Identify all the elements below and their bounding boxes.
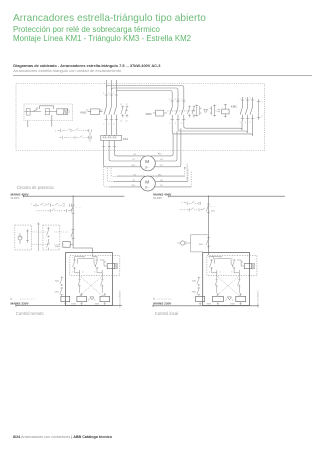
KM1 pole terminal ticks bottom: [105, 119, 118, 121]
KM1 pole terminal labels top: [103, 93, 114, 95]
coil feed stubs local: [217, 293, 241, 296]
svg-text:KM3: KM3: [146, 112, 152, 116]
star-point labels: [262, 102, 263, 118]
coil feed stubs: [62, 293, 105, 296]
logic cross stubs: [80, 253, 103, 277]
motor2 dashed link right: [185, 169, 191, 187]
svg-text:KM1: KM1: [192, 291, 197, 293]
svg-text:M: M: [145, 159, 149, 164]
mains label Hz local: [153, 197, 163, 200]
N mains bold label: [11, 302, 30, 306]
pilot row A terminals: [87, 129, 92, 132]
svg-text:4: 4: [245, 122, 246, 124]
svg-text:50-60Hz: 50-60Hz: [11, 197, 21, 200]
control unit timer block KT: [57, 109, 68, 115]
svg-text:KM2: KM2: [231, 105, 237, 109]
feed drop contact labels: [75, 207, 81, 209]
motor feed W1: [104, 141, 142, 167]
motor M2 return W2: [151, 175, 185, 177]
motor feed V1: [109, 141, 141, 162]
logic left contact KM1 local: [192, 287, 201, 296]
fuse F1 contact: [31, 203, 43, 207]
svg-text:21: 21: [126, 104, 128, 106]
svg-text:FA1: FA1: [123, 137, 129, 141]
pilot contact row A: [55, 129, 64, 133]
pilot row B terminals: [87, 136, 91, 139]
KM3 coil: [153, 110, 167, 116]
KM2 pole 1: [240, 97, 242, 121]
section subheading gray: [13, 68, 121, 73]
svg-text:a: a: [75, 207, 77, 209]
svg-text:2: 2: [209, 272, 210, 274]
motor M1 return U2: [155, 131, 177, 161]
svg-text:A1: A1: [86, 109, 88, 112]
fuse local row2 dashes: [180, 209, 199, 211]
control unit dashed box: [24, 104, 73, 121]
control local caption: [155, 311, 178, 316]
svg-text:MAINS 230V: MAINS 230V: [11, 302, 30, 306]
svg-text:5: 5: [231, 258, 232, 260]
coil KM2 local: [207, 296, 224, 305]
svg-text:6: 6: [231, 272, 232, 274]
pilot row B dashes: [66, 137, 72, 139]
svg-text:e: e: [31, 204, 33, 206]
svg-text:4: 4: [108, 123, 109, 125]
relay KA1 box: [55, 242, 73, 248]
N mains label local: [153, 298, 155, 301]
pilot row B contact 2: [73, 136, 83, 140]
svg-text:13: 13: [120, 104, 122, 106]
motor feed U1: [115, 141, 146, 156]
coil ground stubs: [65, 302, 105, 306]
logic left contact KA1: [55, 277, 63, 287]
KM1 coil terminal labels: [86, 109, 102, 112]
svg-text:2: 2: [72, 272, 73, 274]
fuse row dash 2: [59, 204, 63, 206]
remote station box 1: [15, 225, 32, 250]
svg-text:3: 3: [82, 258, 83, 260]
svg-text:1: 1: [103, 93, 104, 95]
bus L1 to KM3: [106, 86, 184, 104]
remote start contact: [47, 227, 50, 238]
star-delta symbol local: [226, 297, 233, 301]
motor M1 return W2: [151, 134, 174, 156]
motor M1 labels: [145, 159, 150, 169]
svg-text:1: 1: [169, 99, 170, 101]
KM2 pole 2: [245, 97, 247, 121]
control unit drop wire 1: [27, 121, 29, 128]
bus L3 to KM3: [116, 91, 172, 104]
logic over-link wire local: [215, 258, 234, 266]
svg-text:MAINS 230V: MAINS 230V: [153, 302, 172, 306]
KM1 pole terminal labels bottom: [103, 123, 114, 125]
KM1 aux contact 13-14: [121, 106, 124, 118]
N mains label: [11, 298, 13, 301]
control unit contact S1: [34, 108, 39, 112]
logic left contact KA1 local: [192, 277, 200, 287]
svg-text:3: 3: [108, 93, 109, 95]
logic cross stubs local: [217, 270, 240, 276]
lower link contact 1: [48, 209, 55, 213]
logic left contact KM1: [55, 287, 64, 296]
logic column ticks: [78, 280, 103, 286]
svg-text:3~: 3~: [145, 186, 150, 190]
svg-text:5: 5: [113, 93, 114, 95]
motor M1 wire labels: [132, 154, 164, 168]
L rail: [23, 195, 124, 197]
svg-text:A: A: [242, 261, 244, 264]
title line 1: [13, 13, 206, 24]
logic dashed sub-box: [70, 255, 120, 275]
svg-text:KA1: KA1: [55, 280, 60, 283]
fuse row end ticks: [70, 204, 72, 207]
fuse local row1 end: [199, 202, 201, 205]
svg-text:50-60Hz: 50-60Hz: [153, 197, 163, 200]
local pushbutton: [178, 241, 189, 245]
svg-text:3: 3: [219, 258, 220, 260]
outer dashed enclosure box: [16, 84, 265, 151]
svg-text:a: a: [211, 206, 213, 208]
pilot row A tilde contact: [69, 129, 79, 133]
pilot contact row B: [60, 136, 66, 139]
svg-text:5: 5: [94, 258, 95, 260]
svg-text:A: A: [105, 261, 107, 264]
N mains bold label local: [153, 302, 172, 306]
logic internal wires: [75, 257, 108, 294]
pilot row A dashes 2: [79, 130, 87, 132]
mechanical interlock right bracket: [210, 105, 216, 117]
coil KM2: [72, 296, 87, 305]
KM2 coil: [222, 104, 230, 118]
svg-text:4: 4: [175, 123, 176, 125]
circuito de potencia caption: [17, 185, 54, 190]
KM2 pole 3: [250, 97, 252, 121]
motor2 wire W1: [110, 186, 142, 188]
logic timer KT: [107, 264, 117, 269]
coil KM3: [95, 296, 110, 305]
logic internal wires local: [209, 257, 245, 294]
mains label Hz: [11, 197, 21, 200]
logic cross link 1 local: [217, 276, 240, 296]
svg-text:5: 5: [250, 98, 251, 100]
feed drop wire local: [208, 196, 210, 255]
pilot row A dashes: [64, 130, 69, 132]
KM3 pole 3: [181, 98, 242, 130]
N label dashed: [20, 298, 36, 300]
pilot rows link: [89, 132, 91, 142]
motor M1: [140, 156, 155, 171]
logic input contact a local: [210, 259, 213, 270]
logic timer KT local: [244, 264, 254, 269]
logic column ticks local: [216, 280, 241, 286]
KM1 coil: [88, 109, 103, 115]
lower link contact 2: [64, 209, 72, 213]
coil KM3 local: [230, 296, 245, 305]
fuse local row1 dash: [195, 202, 199, 204]
fuse F2 contact: [45, 203, 58, 207]
svg-text:6: 6: [250, 122, 251, 124]
horizontal rule: [13, 74, 312, 77]
motor M1 return V2: [155, 128, 181, 167]
overload relay FA1: [101, 135, 122, 140]
coil KA1: [61, 296, 70, 301]
fuse row dash 1: [44, 204, 48, 206]
drop aux contact KA1 local: [199, 237, 210, 249]
logic unit box local: [203, 253, 250, 306]
logic over-link wire: [78, 258, 97, 266]
N rail local: [153, 305, 259, 307]
control remoto caption: [16, 311, 44, 316]
logic cross link 1: [80, 276, 103, 296]
svg-text:1: 1: [72, 258, 73, 260]
logic dashed sub-box local: [207, 255, 257, 275]
fuse local row 2: [187, 208, 194, 212]
svg-text:KA1: KA1: [199, 243, 204, 246]
coil terminal ticks local: [199, 294, 242, 303]
svg-text:2: 2: [103, 123, 104, 125]
svg-text:A2: A2: [100, 109, 102, 112]
KM3 aux contacts: [188, 106, 196, 118]
svg-text:--: --: [214, 206, 216, 208]
remote station links dashed: [32, 232, 68, 245]
svg-text:3~: 3~: [145, 165, 150, 169]
N label dashed local: [157, 298, 173, 300]
svg-text:M: M: [145, 179, 149, 184]
KM3 pole 2: [176, 98, 248, 133]
logic cross link 2: [80, 276, 103, 296]
svg-text:KA1: KA1: [55, 245, 60, 248]
KM3 pole 1: [170, 98, 253, 136]
KM1 pole terminal ticks top: [105, 94, 118, 96]
coil terminal ticks: [64, 294, 106, 303]
svg-text:22: 22: [126, 121, 128, 123]
drop aux contact KM1: [71, 229, 75, 241]
svg-text:14: 14: [120, 121, 122, 123]
svg-text:U1: U1: [134, 154, 138, 156]
svg-text:KA1: KA1: [192, 280, 197, 283]
svg-text:a: a: [55, 131, 57, 133]
motor1 right junction dots: [184, 167, 185, 168]
KM3 terminal labels: [169, 99, 182, 125]
bus L2 to KM3: [111, 88, 178, 103]
remote station box 2: [43, 225, 60, 250]
svg-text:1SBC101133D0201: 1SBC101133D0201: [258, 289, 260, 308]
footer: [13, 435, 112, 439]
svg-text:1: 1: [209, 258, 210, 260]
KM1 aux contact 21-22: [125, 106, 128, 118]
N rail left: [16, 304, 122, 306]
KM1 aux labels: [120, 104, 128, 123]
svg-text:4: 4: [82, 272, 83, 274]
logic internal labels local: [209, 258, 244, 274]
logic input contact c: [95, 259, 98, 270]
control unit relay K1: [27, 109, 31, 116]
coil KA1 local: [196, 296, 205, 301]
svg-text:W2: W2: [158, 154, 162, 156]
svg-text:2: 2: [262, 116, 263, 118]
remote box1 aux line: [26, 229, 29, 243]
KM2 terminal labels: [240, 98, 251, 124]
logic unit box: [66, 253, 113, 306]
svg-text:Control local: Control local: [155, 311, 178, 316]
KM1 pole L1: [104, 80, 106, 135]
logic cross link 2 local: [217, 276, 240, 296]
KM2 terminal ticks: [241, 100, 254, 119]
svg-text:6: 6: [181, 123, 182, 125]
L rail local: [169, 195, 285, 197]
L rail junction: [72, 196, 73, 197]
remote stop contact: [47, 239, 50, 250]
svg-text:1SBC101131D0201: 1SBC101131D0201: [187, 162, 189, 181]
logic internal labels: [72, 258, 107, 274]
svg-text:e: e: [45, 204, 47, 206]
svg-text:3: 3: [175, 99, 176, 101]
svg-text:---: ---: [78, 207, 81, 209]
feed drop labels local: [211, 206, 216, 212]
interlock equals marks: [218, 110, 221, 112]
KM2 star-point bar: [257, 99, 260, 120]
motor M2 wire labels: [132, 174, 164, 187]
mains label L: [11, 193, 30, 197]
fuse local contact 1: [182, 201, 195, 205]
svg-text:2: 2: [240, 122, 241, 124]
motor M2: [140, 176, 155, 191]
motor feed terminal ticks: [102, 146, 116, 148]
control unit relay K2: [45, 109, 49, 115]
svg-text:4: 4: [219, 272, 220, 274]
fuse double tilde: [63, 203, 65, 206]
mechanical interlock triangle: [204, 110, 208, 113]
svg-text:N: N: [153, 298, 155, 301]
motor M2 labels: [145, 179, 150, 189]
local pushbutton branch wires: [188, 235, 208, 252]
logic input contact a: [73, 259, 76, 270]
star-delta symbol: [88, 297, 95, 301]
control unit internal wiring: [25, 106, 58, 112]
svg-text:5: 5: [181, 99, 182, 101]
remote pushbutton PB1: [18, 233, 22, 244]
motor2 dashed feeds left: [104, 167, 117, 187]
KM1 pole L3: [114, 80, 116, 135]
title line 2: [13, 25, 160, 34]
feed drop contact local: [206, 204, 210, 212]
KM1 pole L2: [109, 80, 111, 135]
svg-text:1: 1: [240, 98, 241, 100]
logic input contact c local: [232, 259, 235, 270]
KM3 terminal ticks: [171, 101, 186, 120]
fuse local row2 end: [199, 208, 205, 211]
feed drop contact: [71, 205, 75, 213]
section heading bold: [13, 63, 160, 68]
inter-box wire: [37, 223, 40, 252]
svg-text:1: 1: [262, 102, 263, 104]
coil ground stubs local: [200, 302, 241, 306]
title line 3: [13, 34, 191, 43]
svg-text:e: e: [182, 202, 184, 204]
mechanical interlock dashed link: [167, 110, 217, 112]
svg-text:1SBC101132D0201: 1SBC101132D0201: [119, 289, 121, 308]
svg-text:KA1: KA1: [211, 209, 216, 212]
L rail local junction: [208, 196, 209, 197]
svg-text:Control remoto: Control remoto: [16, 311, 44, 316]
motor M2 return V2: [155, 186, 191, 188]
motor2 wire V1: [113, 181, 141, 183]
mains label L local: [153, 193, 172, 197]
control unit drop wire 2: [51, 115, 53, 127]
lower link row dashed: [37, 210, 64, 212]
svg-text:6: 6: [94, 272, 95, 274]
svg-text:1: 1: [69, 112, 71, 114]
svg-text:2: 2: [169, 123, 170, 125]
motor M2 return U2: [155, 181, 188, 183]
mechanical interlock left bracket: [195, 105, 201, 117]
svg-text:3: 3: [245, 98, 246, 100]
svg-text:6: 6: [113, 123, 114, 125]
feed drop wire: [73, 196, 92, 252]
pilot row B dashes 2: [83, 137, 87, 139]
svg-text:KM1: KM1: [55, 291, 60, 293]
motor2 wire U1: [117, 175, 145, 177]
svg-text:N: N: [11, 298, 13, 301]
